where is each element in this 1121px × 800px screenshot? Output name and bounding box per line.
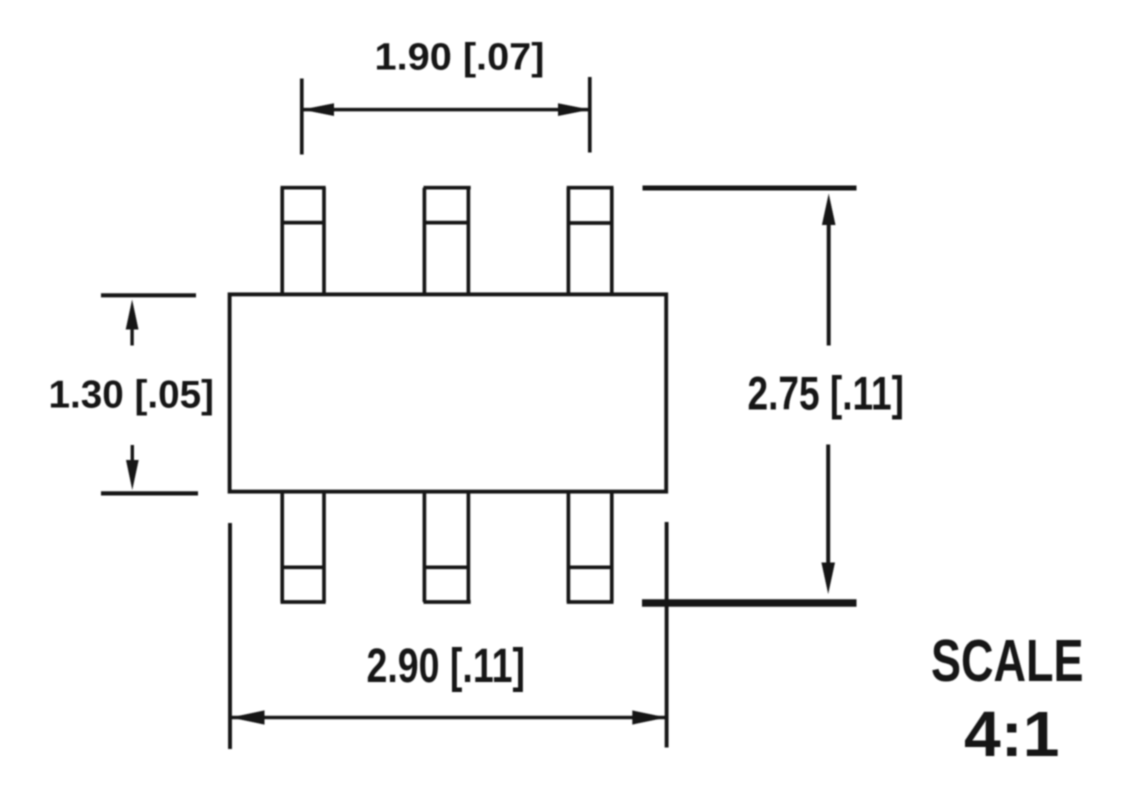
svg-text:2.75 [.11]: 2.75 [.11]: [748, 367, 905, 420]
svg-text:1.30 [.05]: 1.30 [.05]: [49, 374, 215, 417]
svg-text:SCALE: SCALE: [931, 627, 1084, 694]
svg-text:2.90 [.11]: 2.90 [.11]: [367, 640, 526, 693]
svg-text:1.90 [.07]: 1.90 [.07]: [375, 37, 545, 79]
svg-text:4:1: 4:1: [964, 698, 1060, 770]
